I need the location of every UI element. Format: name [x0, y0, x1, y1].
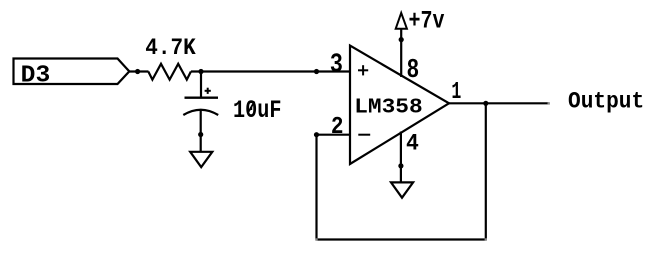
wire capacitor to ground [200, 110, 202, 152]
svg-text:3: 3 [330, 51, 343, 80]
junction dot output/feedback [483, 101, 488, 106]
svg-text:2: 2 [331, 113, 344, 141]
capacitor polarity + sign [205, 88, 211, 94]
output wire end mark [548, 102, 550, 104]
corner mark bottom left [315, 238, 317, 240]
wire pin 4 to ground [400, 132, 402, 183]
junction dot above ground [198, 132, 203, 137]
node D3 tag [14, 59, 130, 90]
op-amp LM358 body [350, 46, 449, 164]
junction dot on power wire [399, 37, 404, 42]
ground symbol (capacitor) [190, 152, 212, 167]
svg-text:10uF: 10uF [233, 96, 281, 125]
capacitor 10uF top plate [185, 96, 219, 98]
svg-text:4.7K: 4.7K [145, 35, 196, 61]
svg-text:8: 8 [407, 56, 420, 86]
ground symbol (op-amp) [391, 182, 413, 197]
svg-text:4: 4 [406, 130, 419, 157]
feedback wire vertical right [485, 103, 487, 239]
wire capacitor lead [200, 72, 202, 97]
wire power to pin 8 [400, 29, 402, 77]
wire op-amp output [449, 102, 549, 104]
pin dot on pin 3 wire [314, 69, 319, 74]
wire resistor to op-amp pin 3 [191, 70, 350, 72]
junction dot wire/capacitor [198, 69, 203, 74]
op-amp non-inverting + symbol [358, 65, 368, 75]
svg-text:LM358: LM358 [354, 95, 422, 119]
feedback wire bottom [317, 238, 486, 240]
junction dot at D3 output [135, 69, 140, 74]
power +7v arrow [396, 13, 407, 29]
feedback wire vertical left [315, 135, 317, 240]
resistor 4.7K [148, 64, 191, 80]
junction dot above op-amp ground [398, 163, 403, 168]
svg-text:Output: Output [568, 89, 644, 115]
wire D3 to resistor [129, 70, 148, 72]
svg-text:D3: D3 [21, 63, 51, 90]
capacitor value label 10uF [233, 96, 281, 125]
svg-text:+7v: +7v [409, 7, 445, 36]
corner mark bottom right [485, 238, 487, 240]
capacitor 10uF bottom plate [183, 110, 218, 115]
corner dot pin 2 feedback [314, 132, 319, 137]
slash in zero [249, 102, 255, 112]
op-amp inverting - symbol [358, 134, 370, 136]
svg-text:1: 1 [451, 79, 461, 106]
wire pin 2 [317, 134, 350, 136]
